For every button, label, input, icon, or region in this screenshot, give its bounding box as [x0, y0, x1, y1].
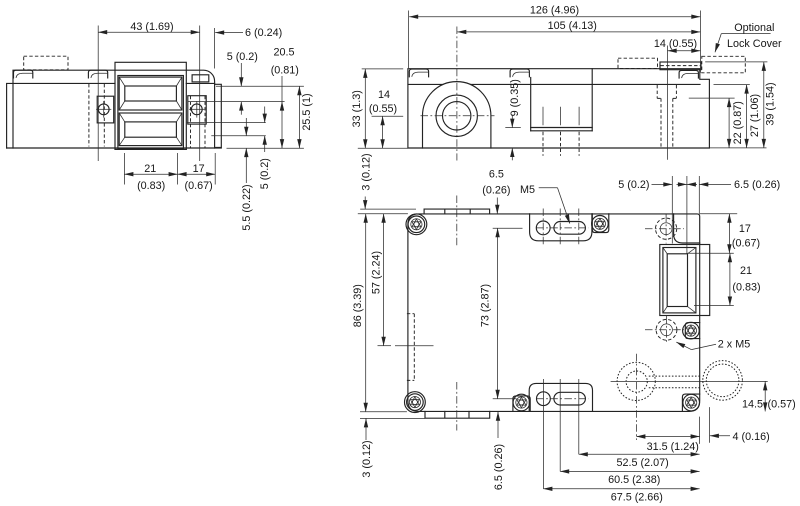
bottom view: conduit knockout right dashed — [703, 361, 743, 401]
front view: dashed cover outline right — [702, 56, 746, 73]
svg-text:5 (0.2): 5 (0.2) — [618, 179, 649, 191]
bottom view: screw plate mid-right — [685, 323, 699, 339]
left view: head slot — [192, 75, 209, 82]
left view: clip tab B — [88, 70, 107, 78]
svg-text:(0.81): (0.81) — [271, 65, 299, 77]
dimension 5.5 (0.22) — [241, 118, 253, 231]
dimension 3 (0.12) top — [358, 153, 416, 213]
dimension 4 (0.16) — [700, 407, 770, 444]
left view: face line right of block — [186, 82, 214, 84]
svg-text:73 (2.87): 73 (2.87) — [479, 284, 491, 327]
svg-text:6.5 (0.26): 6.5 (0.26) — [734, 179, 780, 191]
front view: terminal screw lines — [543, 107, 579, 156]
front view: bottom extension right — [709, 147, 766, 149]
label 2 x M5 with leader — [676, 338, 750, 350]
bottom view: head centerline segments — [456, 196, 458, 431]
svg-text:21: 21 — [740, 265, 752, 277]
dimension 5 (0.2) lower — [259, 107, 271, 190]
dimension 9 (0.35) — [505, 79, 521, 160]
left view: mounting strip profile — [215, 84, 222, 147]
svg-text:57 (2.24): 57 (2.24) — [371, 251, 383, 294]
dimension 3 (0.12) bottom — [360, 412, 425, 478]
svg-text:(0.67): (0.67) — [184, 180, 212, 192]
dimension 5 (0.2) right — [618, 176, 687, 254]
dimension 105 (4.13) — [457, 20, 700, 32]
svg-text:6 (0.24): 6 (0.24) — [245, 27, 282, 39]
bottom view: bottom mounting tab — [529, 383, 592, 411]
left view: extension line bottom right — [227, 147, 304, 149]
dimension 21 (0.83) right — [694, 253, 761, 305]
left view: block bottom line — [115, 148, 186, 150]
bottom view: torx screw bottom-right — [683, 394, 700, 411]
svg-text:33 (1.3): 33 (1.3) — [351, 90, 363, 127]
dimension 39 (1.54) — [705, 62, 776, 148]
dimension 6.5 (0.26) top — [482, 169, 510, 214]
label M5 with leader — [520, 184, 570, 224]
bottom view: top tab strip — [424, 209, 490, 214]
svg-text:5.5 (0.22): 5.5 (0.22) — [241, 184, 253, 230]
left view: screw left — [96, 101, 111, 118]
left view: body top section — [13, 70, 215, 148]
bottom view: torx screw top-left — [408, 216, 425, 233]
svg-text:6.5 (0.26): 6.5 (0.26) — [493, 444, 505, 490]
dimension 31.5 (1.24) — [636, 437, 699, 454]
label Optional Lock Cover — [715, 22, 782, 52]
left view: extension line y135 — [211, 135, 265, 137]
svg-text:60.5 (2.38): 60.5 (2.38) — [608, 474, 660, 486]
bottom view: blade slot block — [660, 245, 710, 316]
dimension 43 (1.69) — [98, 21, 200, 161]
left view: clip tab A — [14, 70, 33, 78]
bottom view: screw plate bottom-middle — [513, 396, 530, 412]
front view: head centerline vertical — [456, 27, 458, 161]
bottom view: body outline — [408, 214, 700, 412]
bottom view: blade slot bevel — [663, 248, 696, 313]
svg-text:14 (0.55): 14 (0.55) — [654, 38, 697, 50]
left view: body left cap — [7, 83, 115, 148]
front view: dashed cover outline left — [618, 58, 658, 68]
svg-text:39 (1.54): 39 (1.54) — [765, 82, 777, 125]
dimension 25.5 (1) — [299, 86, 312, 148]
left view: extension line y122 — [187, 122, 266, 124]
left view: body bottom edge — [7, 147, 222, 149]
dimension 5 (0.2) upper — [227, 51, 258, 115]
svg-text:21: 21 — [144, 163, 156, 175]
bottom view: slot centerline — [378, 345, 434, 347]
front view: clip tab 1 — [409, 69, 428, 77]
bottom view: M5 hole bottom dashed — [645, 316, 684, 344]
dimension 67.5 (2.66) — [543, 489, 699, 504]
bottom view: top tab slot hole — [554, 222, 586, 235]
front view: hidden key slot — [657, 85, 676, 148]
dimension 33 (1.3) — [351, 69, 408, 148]
svg-text:9 (0.35): 9 (0.35) — [509, 79, 521, 116]
svg-text:17: 17 — [193, 163, 205, 175]
dimension 73 (2.87) — [479, 228, 522, 399]
svg-text:5 (0.2): 5 (0.2) — [259, 158, 271, 189]
dimension 126 (4.96) — [409, 5, 701, 73]
bottom view: corner boss bottom-right — [682, 394, 699, 411]
bottom view: M5 hole top dashed — [645, 215, 684, 244]
dimension 6 (0.24) — [215, 27, 283, 68]
left view: hidden lines left section — [89, 84, 104, 147]
svg-text:14.5: 14.5 — [742, 399, 763, 411]
bottom view: conduit centerline vertical — [635, 354, 637, 440]
bottom view: screw plate top — [592, 214, 609, 233]
svg-text:5 (0.2): 5 (0.2) — [227, 51, 258, 63]
dimension 57 (2.24) — [371, 214, 384, 346]
bottom view: torx screw top-middle — [592, 216, 609, 233]
svg-text:43 (1.69): 43 (1.69) — [130, 21, 173, 33]
bottom view: torx screw bottom-left — [407, 394, 424, 411]
svg-text:2 x M5: 2 x M5 — [718, 338, 750, 350]
left view: hidden lines right section — [191, 96, 206, 148]
svg-text:M5: M5 — [520, 184, 535, 196]
dimension 86 (3.39) — [352, 214, 366, 412]
dimension 60.5 (2.38) — [560, 471, 699, 486]
svg-text:31.5 (1.24): 31.5 (1.24) — [647, 441, 699, 453]
bottom view: torx screw mid-right — [683, 322, 700, 339]
bottom view: bottom tab slot hole — [554, 392, 586, 405]
svg-text:(0.83): (0.83) — [732, 282, 760, 294]
left view: louver window 1 — [119, 77, 182, 110]
svg-text:20.5: 20.5 — [273, 47, 294, 59]
svg-text:25.5 (1): 25.5 (1) — [301, 93, 313, 130]
front view: terminal recess — [531, 69, 593, 131]
front view: clip tab 2 — [510, 69, 529, 77]
dimension 6.5 (0.26) bottom — [493, 412, 505, 490]
left view: extension line y86 — [216, 85, 304, 87]
bottom view: bottom tab strip — [425, 411, 490, 418]
front view: head boss — [423, 82, 491, 148]
svg-text:(0.67): (0.67) — [732, 238, 760, 250]
front view: face line — [408, 83, 700, 85]
svg-text:3 (0.12): 3 (0.12) — [361, 440, 373, 477]
dimension 14 (0.55) top — [654, 38, 700, 160]
front view: lock cover plate — [660, 62, 701, 70]
bottom view: bottom tab round hole — [537, 392, 551, 406]
bottom view: top-right tab — [674, 214, 700, 243]
bottom view: corner boss bottom-left — [405, 392, 426, 413]
bottom view: conduit centerline horizontal — [611, 380, 768, 382]
left view: screw plate left — [97, 96, 114, 123]
svg-text:4 (0.16): 4 (0.16) — [733, 431, 770, 443]
dimension 22 (0.87) — [689, 98, 744, 148]
left view: raised louver block — [115, 62, 186, 149]
left view: louver window 2 — [119, 113, 182, 146]
bottom view: top tab centerlines — [536, 209, 588, 247]
dimension 17 (0.67) right — [688, 214, 761, 253]
svg-text:86 (3.39): 86 (3.39) — [352, 284, 364, 327]
dimension 20.5 (0.81) — [271, 47, 299, 149]
svg-text:17: 17 — [739, 223, 751, 235]
left view: screw plate right — [188, 96, 206, 124]
front view: head centerline horizontal — [421, 115, 495, 117]
bottom view: top tab round hole — [536, 221, 550, 235]
dimension 21 (0.83) / 17 (0.67) — [124, 153, 215, 192]
svg-text:Lock Cover: Lock Cover — [727, 38, 782, 50]
left view: louver panel frame — [118, 76, 183, 149]
dimension 6.5 (0.26) right — [687, 176, 780, 214]
svg-text:3 (0.12): 3 (0.12) — [360, 153, 372, 190]
svg-text:6.5: 6.5 — [489, 169, 504, 181]
svg-text:27 (1.06): 27 (1.06) — [749, 94, 761, 137]
svg-text:Optional: Optional — [734, 22, 774, 34]
bottom view: conduit tunnel dashed — [649, 376, 701, 388]
front view: clip tab 3 — [679, 70, 698, 78]
svg-text:67.5 (2.66): 67.5 (2.66) — [611, 492, 663, 504]
svg-text:126 (4.96): 126 (4.96) — [530, 5, 579, 17]
svg-text:22 (0.87): 22 (0.87) — [732, 101, 744, 144]
left view: dashed accessory outline — [24, 56, 68, 70]
front view: body outline — [408, 69, 710, 148]
svg-text:105 (4.13): 105 (4.13) — [548, 20, 597, 32]
bottom view: hidden slot left edge — [407, 314, 414, 381]
svg-text:(0.83): (0.83) — [137, 180, 165, 192]
svg-text:(0.55): (0.55) — [369, 103, 397, 115]
dimension 27 (1.06) — [714, 85, 762, 148]
bottom view: top mounting tab — [530, 214, 592, 241]
left view: screw right — [189, 101, 204, 118]
dimension 14 (0.55) left — [369, 89, 403, 149]
svg-text:(0.26): (0.26) — [482, 184, 510, 196]
bottom view: bottom tab centerlines — [536, 379, 588, 489]
bottom view: corner boss top-left — [406, 214, 427, 235]
svg-text:(0.57): (0.57) — [768, 399, 796, 411]
bottom view: torx screw bottom-middle — [513, 394, 530, 411]
left view: extension line y101 — [188, 101, 285, 103]
bottom view: conduit knockout left dashed — [617, 362, 655, 400]
dimension 14.5 (0.57) — [742, 381, 796, 411]
dimension 52.5 (2.07) — [579, 454, 700, 469]
svg-text:14: 14 — [378, 89, 390, 101]
svg-text:52.5 (2.07): 52.5 (2.07) — [616, 457, 668, 469]
